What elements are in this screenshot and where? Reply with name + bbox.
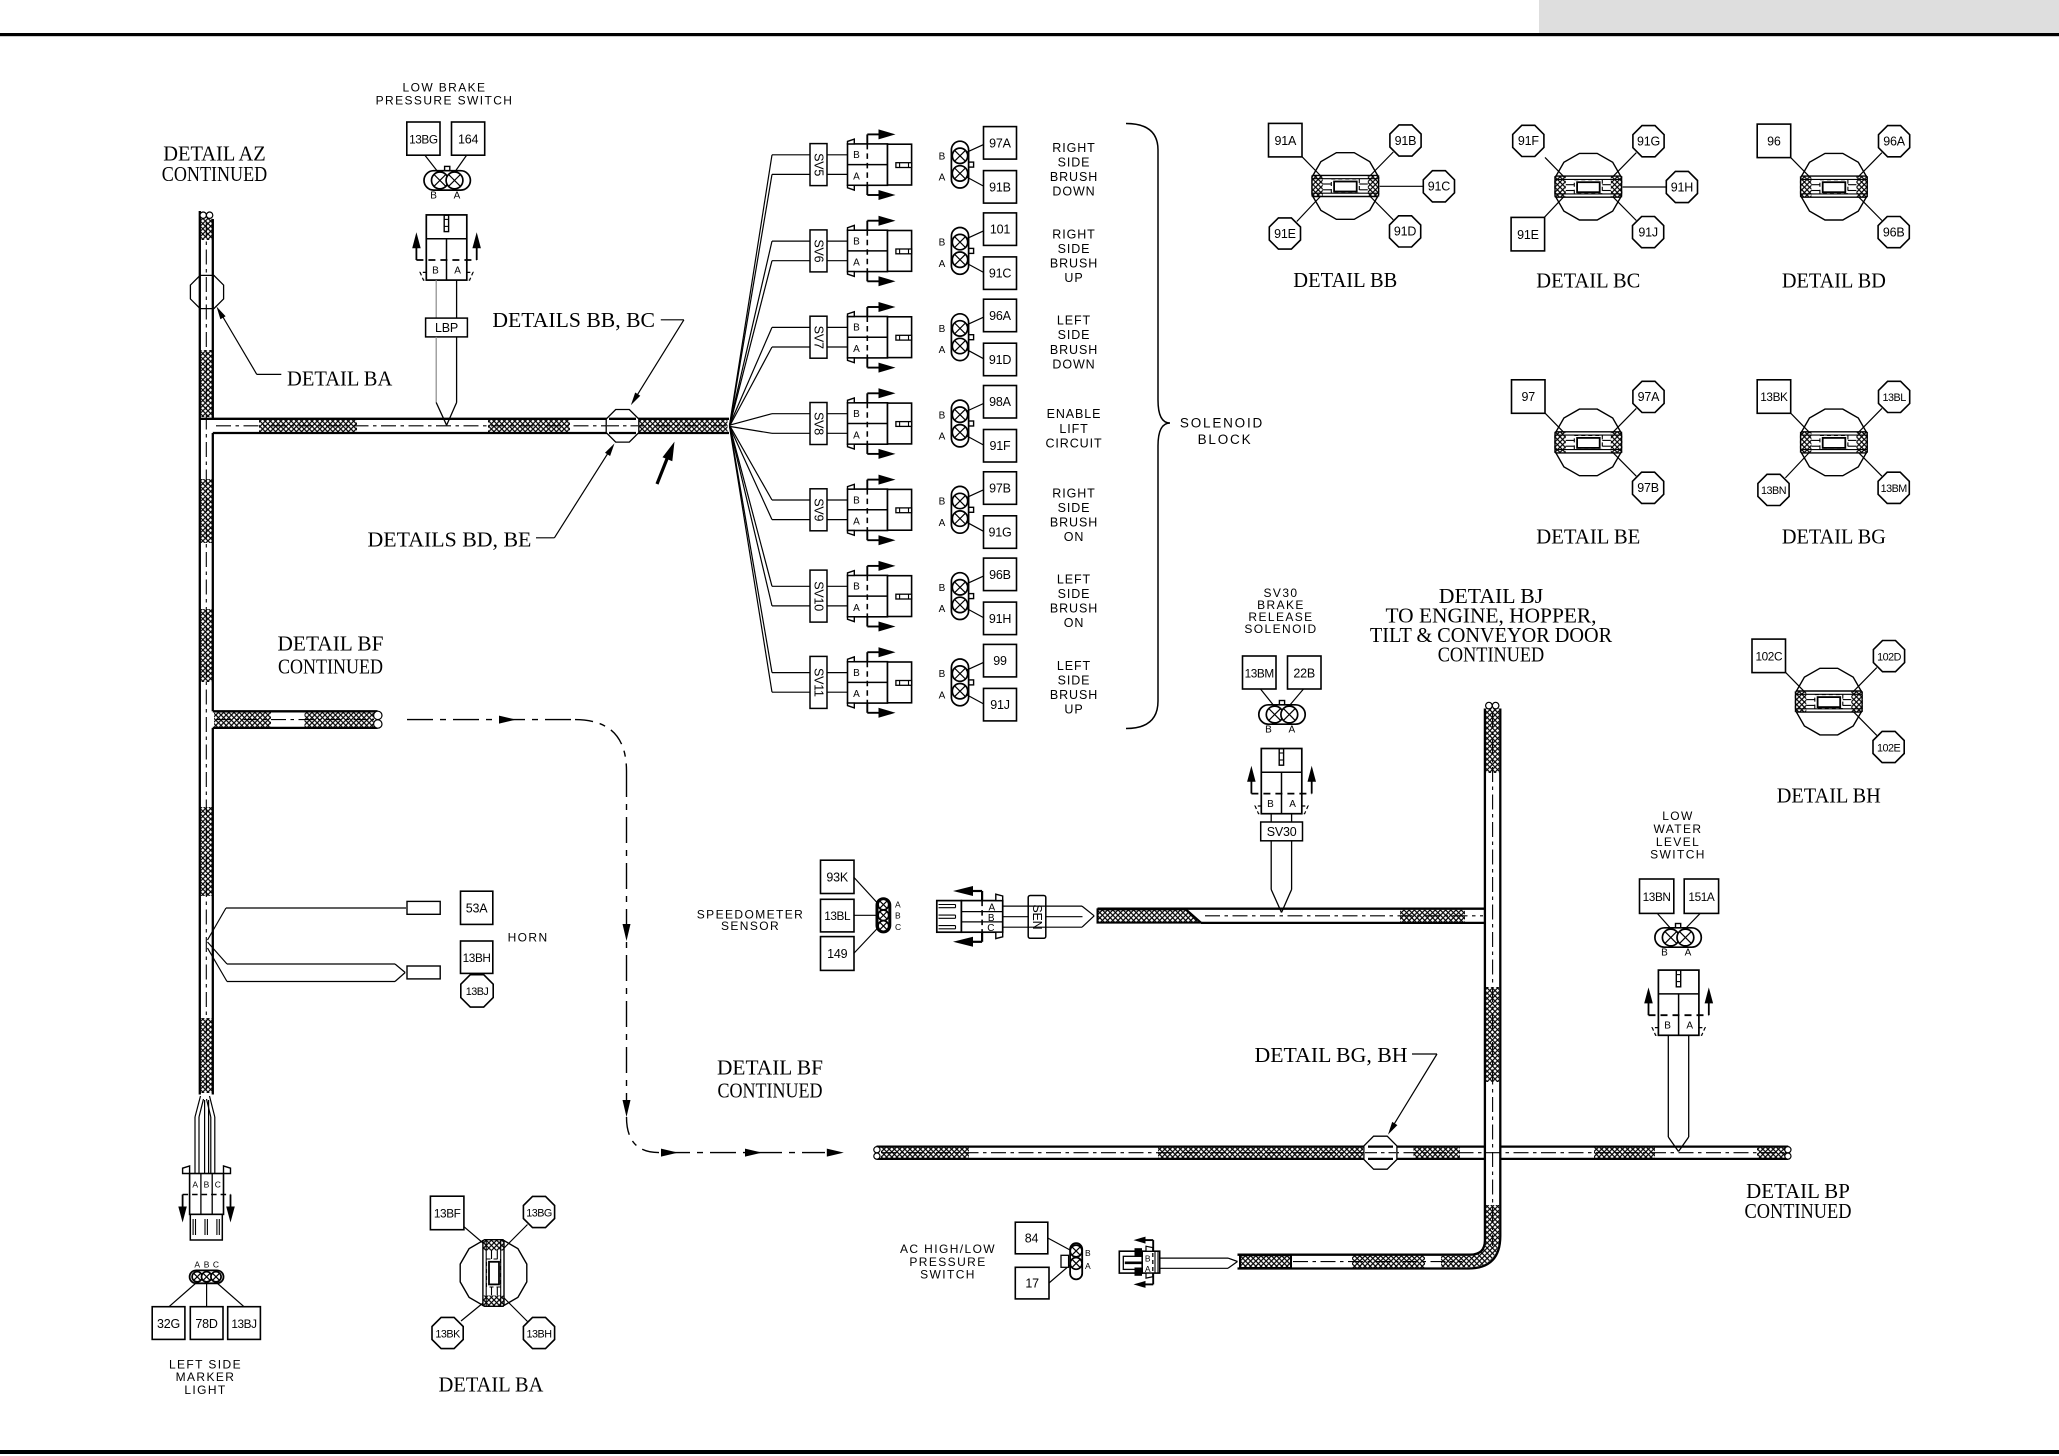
svg-text:C: C — [987, 923, 994, 934]
svg-text:SV5: SV5 — [812, 153, 826, 176]
svg-text:BRUSH: BRUSH — [1050, 602, 1098, 616]
wire label box 96A — [984, 299, 1017, 332]
svg-text:B: B — [1664, 1021, 1671, 1032]
svg-text:SIDE: SIDE — [1058, 673, 1091, 687]
splice DETAIL BA — [464, 1226, 484, 1243]
wire label box 78D — [190, 1307, 223, 1340]
svg-text:SV30: SV30 — [1267, 825, 1297, 839]
svg-text:MARKER: MARKER — [176, 1370, 236, 1384]
svg-text:96A: 96A — [989, 309, 1012, 323]
svg-text:DETAIL BC: DETAIL BC — [1536, 269, 1640, 293]
svg-text:BRUSH: BRUSH — [1050, 170, 1098, 184]
harness taper to marker light wires — [195, 1096, 201, 1117]
connector SV6 oval — [969, 248, 974, 253]
svg-text:91G: 91G — [988, 526, 1011, 540]
svg-text:B: B — [430, 191, 437, 202]
harness BP left end circles — [874, 1147, 880, 1153]
svg-text:A: A — [939, 173, 946, 184]
svg-text:C: C — [215, 1180, 221, 1190]
fan-out wires from harness to solenoid valves — [730, 155, 773, 425]
wires sensor to harness — [1003, 905, 1082, 907]
connector SV11 oval — [969, 680, 974, 685]
svg-text:13BN: 13BN — [1643, 890, 1671, 904]
svg-text:97B: 97B — [989, 482, 1011, 496]
wire label box 91F — [984, 430, 1017, 463]
connector SV8 oval — [969, 421, 974, 426]
wire label LBP — [426, 318, 468, 337]
svg-text:SIDE: SIDE — [1058, 156, 1091, 170]
svg-text:LOW BRAKE: LOW BRAKE — [403, 81, 487, 95]
wire label box 96B — [984, 558, 1017, 591]
svg-text:BRUSH: BRUSH — [1050, 515, 1098, 529]
wire harness vertical DETAIL BG BH — [1485, 709, 1500, 1242]
AC switch pigtail oval — [1061, 1255, 1069, 1267]
svg-text:96B: 96B — [1883, 225, 1905, 239]
svg-text:13BH: 13BH — [526, 1328, 551, 1340]
wire harness BF stub — [213, 710, 378, 712]
svg-text:102C: 102C — [1755, 649, 1782, 663]
svg-text:BLOCK: BLOCK — [1198, 432, 1253, 447]
wire label box 32G — [152, 1307, 185, 1340]
connector SV9 oval — [969, 507, 974, 512]
svg-text:SOLENOID: SOLENOID — [1244, 622, 1317, 636]
svg-text:B: B — [1265, 725, 1272, 736]
leaders to low water connector — [1658, 914, 1672, 929]
connector SV5 — [848, 144, 888, 185]
wire label octagon 13BK — [432, 1317, 463, 1348]
svg-text:DETAIL BE: DETAIL BE — [1536, 524, 1640, 548]
AC switch connector male half — [1119, 1251, 1142, 1273]
svg-text:91B: 91B — [1395, 134, 1417, 148]
svg-text:A: A — [939, 432, 946, 443]
wire harness DETAIL AZ vertical — [199, 211, 201, 1095]
leader lines SV7 — [966, 317, 984, 325]
splice DETAIL BC — [1545, 157, 1564, 177]
svg-text:DETAIL BA: DETAIL BA — [439, 1373, 544, 1397]
connector SV11 — [848, 662, 888, 703]
connector SV9 — [848, 489, 888, 530]
svg-text:BRUSH: BRUSH — [1050, 257, 1098, 271]
svg-text:SWITCH: SWITCH — [1650, 848, 1706, 862]
svg-text:B: B — [432, 265, 439, 276]
solenoid valve SV7 label box — [810, 316, 827, 358]
svg-text:B: B — [939, 238, 946, 249]
svg-text:91A: 91A — [1274, 134, 1297, 148]
svg-text:ENABLE: ENABLE — [1047, 407, 1102, 421]
connector SV5 oval — [969, 162, 974, 167]
svg-text:91E: 91E — [1517, 228, 1539, 242]
svg-text:A: A — [853, 517, 860, 528]
svg-text:91C: 91C — [989, 267, 1012, 281]
svg-text:DETAILS BB, BC: DETAILS BB, BC — [492, 308, 655, 332]
solenoid valve SV5 label box — [810, 144, 827, 186]
svg-text:DOWN: DOWN — [1052, 185, 1095, 199]
svg-text:13BJ: 13BJ — [466, 986, 489, 998]
svg-text:SENSOR: SENSOR — [721, 919, 780, 933]
wire label octagon 13BJ — [461, 975, 493, 1007]
svg-text:C: C — [895, 922, 901, 932]
svg-text:A: A — [1289, 799, 1296, 810]
svg-text:A: A — [454, 191, 461, 202]
brace solenoid block — [1126, 124, 1170, 729]
wire A from connector — [456, 280, 458, 318]
wire label box 13BH — [461, 941, 493, 973]
svg-text:A: A — [939, 345, 946, 356]
svg-text:SWITCH: SWITCH — [920, 1267, 976, 1281]
svg-text:B: B — [853, 582, 860, 593]
svg-text:B: B — [1145, 1253, 1151, 1263]
wire label box 98A — [984, 386, 1017, 419]
wire label box 151A — [1684, 879, 1718, 913]
svg-text:B: B — [853, 150, 860, 161]
svg-text:SV8: SV8 — [812, 412, 826, 435]
svg-text:A: A — [939, 259, 946, 270]
wires AC switch to harness — [1160, 1257, 1228, 1259]
svg-text:17: 17 — [1025, 1277, 1039, 1291]
svg-text:102D: 102D — [1877, 651, 1902, 663]
svg-text:13BF: 13BF — [434, 1207, 461, 1221]
svg-text:B: B — [853, 495, 860, 506]
svg-text:PRESSURE SWITCH: PRESSURE SWITCH — [376, 94, 514, 108]
svg-text:LEFT: LEFT — [1057, 314, 1091, 328]
svg-text:LIFT: LIFT — [1059, 422, 1088, 436]
svg-text:DETAIL BB: DETAIL BB — [1293, 268, 1397, 292]
svg-text:ON: ON — [1064, 616, 1085, 630]
wire label box 13BG — [407, 122, 440, 155]
svg-text:91E: 91E — [1274, 227, 1296, 241]
wires SV30 down to harness — [1270, 841, 1272, 890]
low brake pressure switch mating connector — [426, 215, 467, 280]
wire label SV30 — [1261, 822, 1303, 841]
svg-text:DETAILS BD, BE: DETAILS BD, BE — [368, 528, 532, 552]
leader lines SV5 — [966, 145, 984, 153]
svg-text:96B: 96B — [989, 568, 1011, 582]
leader lines SV10 — [966, 576, 984, 584]
svg-text:DETAIL BG: DETAIL BG — [1782, 524, 1886, 548]
header gray tab — [1539, 0, 2059, 33]
svg-text:A: A — [895, 900, 901, 910]
harness BF stub end circles — [374, 711, 382, 719]
svg-text:B: B — [939, 410, 946, 421]
wire label box 13BJ — [228, 1307, 261, 1340]
svg-text:SV7: SV7 — [812, 326, 826, 349]
svg-text:B: B — [853, 668, 860, 679]
leader lines to SV30 connector — [1261, 689, 1275, 707]
svg-text:B: B — [895, 911, 901, 921]
SV30 mating connector — [1261, 749, 1302, 814]
wire label box 84 — [1015, 1222, 1048, 1254]
svg-text:DETAIL BG, BH: DETAIL BG, BH — [1255, 1043, 1408, 1067]
svg-text:UP: UP — [1064, 271, 1083, 285]
wires from SV30 connector — [1270, 814, 1272, 822]
svg-text:RIGHT: RIGHT — [1052, 227, 1095, 241]
marker light connector male pins — [190, 1214, 222, 1240]
svg-text:98A: 98A — [989, 395, 1012, 409]
svg-text:RIGHT: RIGHT — [1052, 486, 1095, 500]
svg-text:97A: 97A — [1638, 390, 1661, 404]
curve hatch — [1441, 1205, 1499, 1267]
wire label box 17 — [1015, 1267, 1049, 1299]
wire label box 91J — [984, 688, 1017, 721]
connector SV6 — [848, 230, 888, 271]
svg-text:C: C — [213, 1260, 219, 1270]
svg-text:13BL: 13BL — [824, 909, 851, 923]
bottom border line — [0, 1450, 2059, 1454]
svg-text:13BG: 13BG — [526, 1207, 552, 1219]
disconnect arrows marker light connector — [182, 1195, 184, 1208]
svg-text:HORN: HORN — [508, 931, 549, 945]
svg-text:22B: 22B — [1293, 667, 1315, 681]
svg-text:91C: 91C — [1428, 180, 1451, 194]
svg-text:CONTINUED: CONTINUED — [718, 1079, 823, 1103]
low water level switch connector oval — [1676, 924, 1681, 929]
svg-text:101: 101 — [990, 223, 1011, 237]
svg-text:SV11: SV11 — [812, 668, 826, 697]
splice DETAIL BD — [1858, 153, 1882, 178]
svg-text:13BJ: 13BJ — [231, 1317, 257, 1331]
speedometer connector female half SEN — [961, 901, 1002, 933]
svg-text:B: B — [939, 669, 946, 680]
connector SV7 oval — [969, 335, 974, 340]
svg-text:96: 96 — [1767, 135, 1781, 149]
leader lines SV11 — [966, 662, 984, 670]
svg-text:LOW: LOW — [1662, 809, 1694, 823]
svg-text:13BM: 13BM — [1245, 667, 1274, 681]
wires LBP down to harness — [435, 337, 437, 403]
svg-text:SOLENOID: SOLENOID — [1180, 416, 1264, 431]
direction arrow at harness — [657, 453, 670, 485]
wire label octagon 13BG — [523, 1196, 554, 1227]
svg-text:UP: UP — [1064, 703, 1083, 717]
svg-text:91F: 91F — [1518, 134, 1540, 148]
speedometer connector male half — [937, 901, 962, 933]
svg-text:B: B — [1085, 1248, 1091, 1258]
svg-text:13BH: 13BH — [463, 951, 491, 965]
disconnect arrows speedometer connector — [981, 891, 983, 901]
svg-text:WATER: WATER — [1654, 822, 1703, 836]
wire label box 91C — [984, 257, 1017, 290]
svg-text:91D: 91D — [989, 353, 1012, 367]
wire label box 13BL — [821, 899, 855, 932]
wire pair to horn terminal 13BH — [208, 942, 228, 964]
svg-text:91H: 91H — [1671, 180, 1694, 194]
solenoid valve SV8 label box — [810, 403, 827, 445]
svg-text:13BG: 13BG — [409, 133, 438, 147]
splice DETAIL BG — [1858, 408, 1882, 433]
svg-text:SV6: SV6 — [812, 239, 826, 262]
svg-text:A: A — [939, 690, 946, 701]
svg-text:SIDE: SIDE — [1058, 328, 1091, 342]
svg-text:A: A — [988, 902, 995, 913]
svg-text:78D: 78D — [195, 1317, 218, 1331]
svg-text:13BK: 13BK — [1760, 390, 1788, 404]
low water level switch mating connector — [1658, 970, 1699, 1035]
svg-text:149: 149 — [827, 947, 848, 961]
svg-text:B: B — [853, 236, 860, 247]
leader dash-dot DETAIL BF — [407, 719, 575, 721]
svg-text:53A: 53A — [466, 902, 489, 916]
SV30 solenoid connector oval — [1279, 701, 1284, 706]
wire label box 97A — [984, 127, 1017, 160]
marker light connector — [183, 1166, 190, 1174]
svg-text:CONTINUED: CONTINUED — [162, 162, 267, 186]
svg-text:A: A — [939, 518, 946, 529]
leader lines SV9 — [966, 490, 984, 498]
wire label box 93K — [821, 860, 855, 893]
leader lines SV8 — [966, 404, 984, 412]
leader to DETAIL BA label — [219, 310, 257, 375]
svg-text:BRUSH: BRUSH — [1050, 343, 1098, 357]
connector SV10 — [848, 575, 888, 616]
svg-text:A: A — [853, 603, 860, 614]
svg-text:BRUSH: BRUSH — [1050, 688, 1098, 702]
wire to horn terminal 53A — [208, 908, 227, 940]
wire label box 99 — [984, 644, 1017, 677]
svg-text:A: A — [1288, 725, 1295, 736]
node octagon DETAIL BG BH on harness BP — [1364, 1136, 1397, 1169]
svg-text:B: B — [939, 497, 946, 508]
svg-text:32G: 32G — [157, 1317, 180, 1331]
svg-text:LEFT: LEFT — [1057, 659, 1091, 673]
leader lines SV6 — [966, 231, 984, 239]
svg-text:A: A — [853, 430, 860, 441]
wire harness DETAIL BP horizontal — [877, 1145, 1485, 1147]
connector SV10 oval — [969, 594, 974, 599]
svg-text:SIDE: SIDE — [1058, 242, 1091, 256]
svg-text:A: A — [853, 258, 860, 269]
harness AZ open end circles — [200, 212, 206, 218]
svg-text:97A: 97A — [989, 136, 1012, 150]
svg-text:99: 99 — [993, 654, 1007, 668]
svg-text:96A: 96A — [1883, 135, 1906, 149]
svg-text:13BM: 13BM — [1881, 483, 1908, 495]
svg-text:LBP: LBP — [435, 321, 458, 335]
svg-text:91H: 91H — [989, 612, 1012, 626]
svg-text:B: B — [1267, 799, 1274, 810]
svg-text:CONTINUED: CONTINUED — [278, 655, 383, 679]
svg-text:102E: 102E — [1877, 742, 1901, 754]
harness BG BH open end circles — [1486, 702, 1493, 709]
splice DETAIL BH — [1853, 668, 1877, 693]
node DETAIL BA marker octagon — [190, 275, 223, 308]
low brake pressure switch connector oval — [445, 166, 450, 171]
splice DETAIL BE — [1612, 408, 1636, 433]
svg-text:13BL: 13BL — [1882, 392, 1906, 404]
wire label box 91B — [984, 171, 1017, 204]
svg-text:B: B — [1661, 948, 1668, 959]
svg-text:B: B — [939, 583, 946, 594]
leaders to AC switch connector — [1048, 1238, 1070, 1250]
svg-text:B: B — [204, 1180, 210, 1190]
svg-text:CONTINUED: CONTINUED — [1438, 643, 1545, 667]
wire label box 91G — [984, 516, 1017, 549]
AC switch connector female half — [1142, 1251, 1160, 1273]
svg-text:A: A — [853, 171, 860, 182]
svg-text:13BK: 13BK — [435, 1328, 461, 1340]
svg-text:A: A — [1686, 1021, 1693, 1032]
node octagon DETAILS BB BC on harness — [606, 410, 639, 443]
solenoid valve SV6 label box — [810, 230, 827, 272]
svg-text:A: A — [939, 604, 946, 615]
wire label box 101 — [984, 213, 1017, 246]
svg-text:B: B — [939, 151, 946, 162]
solenoid valve SV11 label box — [810, 656, 827, 708]
wire label box 91H — [984, 602, 1017, 635]
svg-text:SIDE: SIDE — [1058, 587, 1091, 601]
svg-text:DETAIL BF: DETAIL BF — [717, 1056, 823, 1080]
svg-text:B: B — [204, 1260, 210, 1270]
wire label box 97B — [984, 472, 1017, 505]
svg-text:A: A — [853, 689, 860, 700]
svg-text:ON: ON — [1064, 530, 1085, 544]
wires low water to harness BP — [1667, 1035, 1669, 1137]
wire label octagon 13BH — [523, 1317, 554, 1348]
svg-text:B: B — [853, 409, 860, 420]
wire label box 91D — [984, 343, 1017, 376]
wire label SEN — [1028, 896, 1046, 939]
svg-text:A: A — [194, 1260, 200, 1270]
svg-text:SEN: SEN — [1030, 904, 1044, 929]
wire label box 13BN — [1640, 879, 1674, 913]
top border line — [0, 33, 2059, 36]
svg-text:A: A — [1085, 1261, 1091, 1271]
svg-text:CIRCUIT: CIRCUIT — [1046, 436, 1103, 450]
connector SV7 — [848, 317, 888, 358]
leader lines to connector — [425, 155, 438, 172]
svg-text:DETAIL BF: DETAIL BF — [278, 632, 384, 656]
svg-text:SIDE: SIDE — [1058, 501, 1091, 515]
leaders to marker light labels — [169, 1283, 196, 1307]
svg-text:97: 97 — [1522, 390, 1536, 404]
svg-text:93K: 93K — [826, 871, 849, 885]
solenoid valve SV9 label box — [810, 489, 827, 531]
svg-text:DETAIL BH: DETAIL BH — [1777, 784, 1881, 808]
svg-text:DOWN: DOWN — [1052, 357, 1095, 371]
wire label box 164 — [452, 122, 485, 155]
svg-text:RIGHT: RIGHT — [1052, 141, 1095, 155]
wire label box 149 — [821, 937, 855, 971]
svg-text:84: 84 — [1025, 1232, 1039, 1246]
svg-text:164: 164 — [458, 133, 479, 147]
splice DETAIL BB — [1369, 152, 1393, 177]
svg-text:LEFT: LEFT — [1057, 573, 1091, 587]
wire label box 53A — [461, 891, 493, 924]
svg-text:DETAIL BD: DETAIL BD — [1782, 269, 1886, 293]
svg-text:A: A — [454, 265, 461, 276]
wire B from connector — [435, 280, 437, 318]
svg-text:B: B — [853, 323, 860, 334]
svg-text:91G: 91G — [1637, 135, 1660, 149]
svg-text:91J: 91J — [990, 698, 1010, 712]
wire label box 13BM — [1243, 656, 1277, 689]
speedometer sensor 3-pin oval — [854, 877, 879, 904]
solenoid valve SV10 label box — [810, 570, 827, 622]
svg-text:SV9: SV9 — [812, 498, 826, 521]
svg-text:91D: 91D — [1394, 225, 1417, 239]
svg-text:A: A — [853, 344, 860, 355]
svg-text:A: A — [1145, 1264, 1151, 1274]
svg-text:151A: 151A — [1688, 890, 1714, 904]
svg-text:A: A — [1685, 948, 1692, 959]
wire harness DETAIL BF to solenoid valves — [1098, 909, 1202, 922]
svg-text:A: A — [192, 1180, 198, 1190]
wire harness AC switch start block — [1240, 1255, 1291, 1268]
svg-text:91B: 91B — [989, 180, 1011, 194]
svg-text:91J: 91J — [1638, 225, 1658, 239]
disconnect arrows AC connector — [1152, 1240, 1154, 1251]
harness BP right end circles — [1785, 1147, 1791, 1153]
svg-text:B: B — [939, 324, 946, 335]
